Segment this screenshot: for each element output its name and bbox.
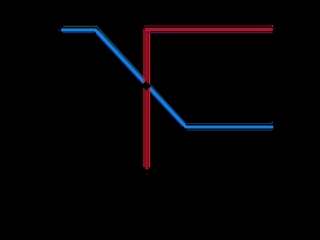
blue signal core polyline [61, 30, 273, 127]
blue trace navy upper echo (bottom horizontal) [187, 123, 273, 125]
crossing magenta artifact dot [147, 81, 148, 82]
blue trace navy lower echo (bottom horizontal) [187, 129, 273, 131]
red vertical bright left edge [143, 29, 145, 168]
red horizontal crimson core [145, 28, 273, 31]
blue start fade dot [58, 30, 60, 32]
blue diagonal navy underlay [97, 32, 184, 125]
blue end green artifact dot [272, 122, 273, 123]
red horizontal dark upper echo [144, 25, 272, 27]
red vertical maroon core [145, 28, 149, 169]
red vertical bottom fade dot [146, 173, 148, 175]
blue trace navy lower echo (top horizontal) [63, 32, 95, 34]
diagonal teal artifact dots [102, 34, 103, 35]
blue trace teal upper echo (top horizontal + diagonal) [63, 26, 184, 122]
red horizontal purple lower echo [146, 32, 273, 34]
red horizontal end faint dot [274, 28, 275, 29]
red vertical bright right edge [149, 29, 151, 168]
red horizontal end bright dot [272, 25, 274, 27]
crossing black compression blob [141, 81, 151, 91]
